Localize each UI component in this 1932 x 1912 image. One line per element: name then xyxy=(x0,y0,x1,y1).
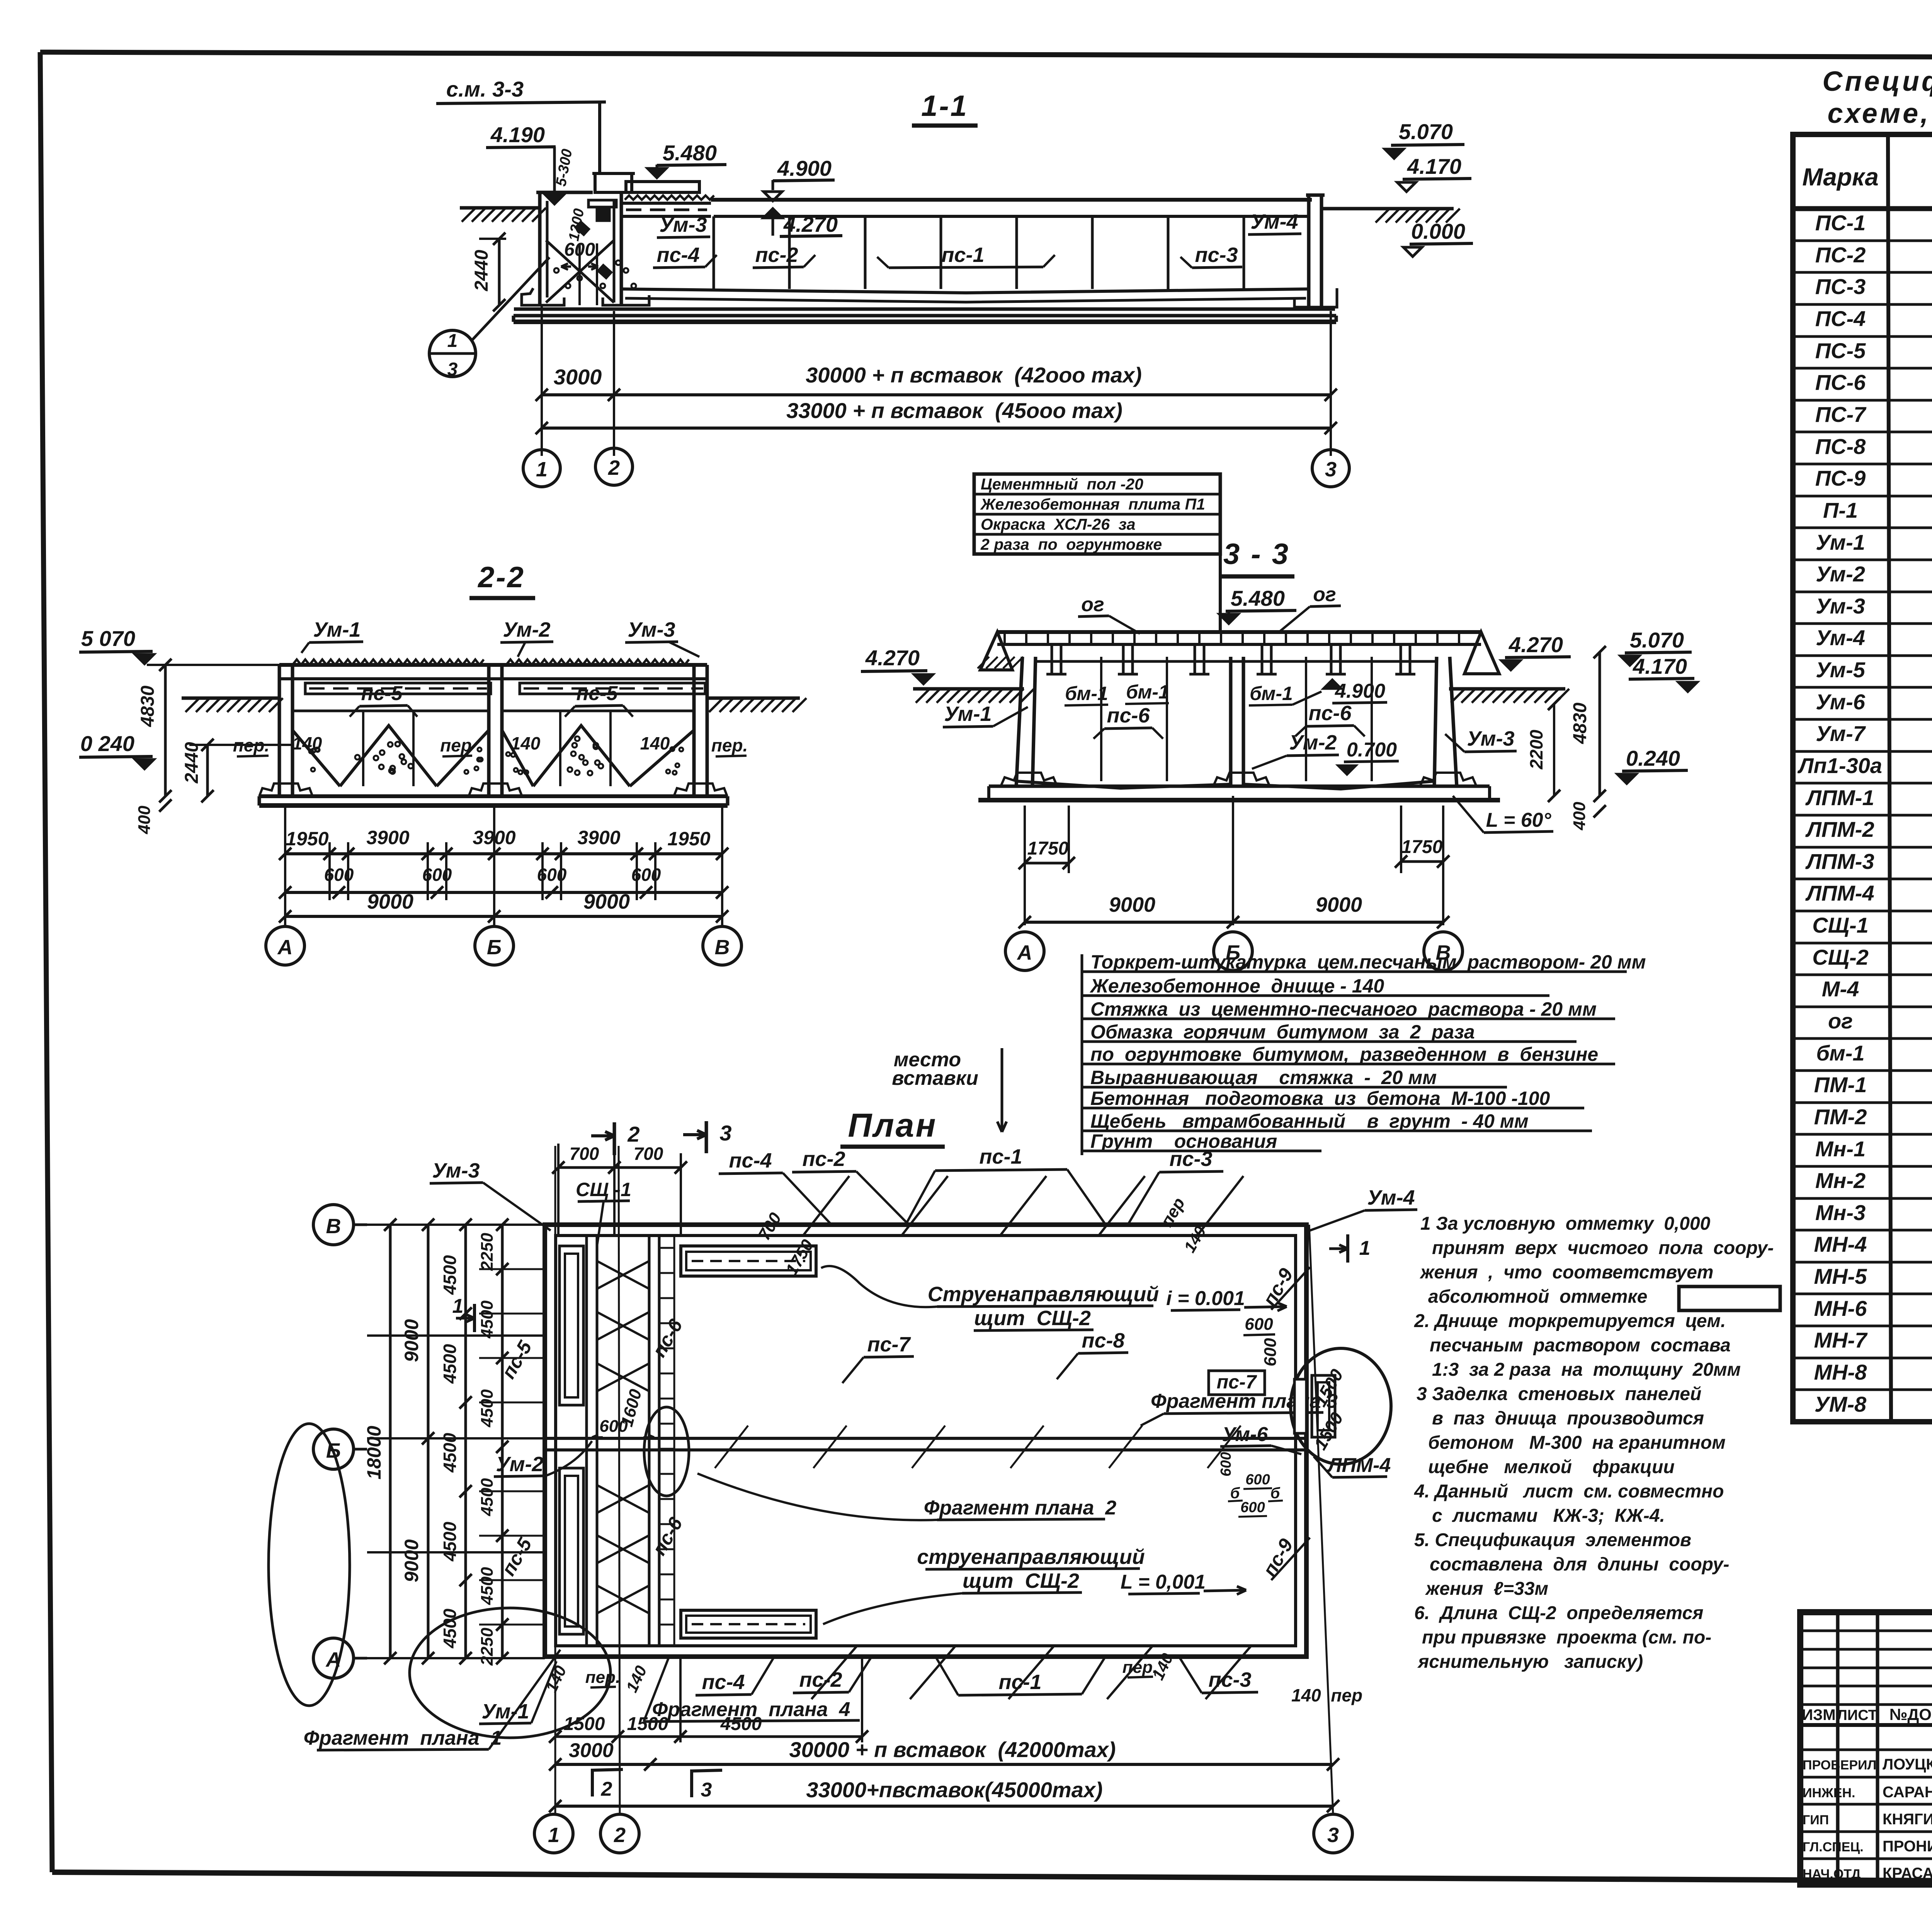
svg-text:Ум-3: Ум-3 xyxy=(432,1159,480,1182)
svg-text:140: 140 xyxy=(293,733,322,753)
plan wall hatch slashes bottom xyxy=(811,1646,857,1699)
svg-text:33000+пвставок(45000тах): 33000+пвставок(45000тах) xyxy=(806,1778,1102,1802)
svg-text:4. Данный лист см. совместн: 4. Данный лист см. совместно xyxy=(1414,1481,1724,1502)
svg-text:щебне мелкой фракции: щебне мелкой фракции xyxy=(1428,1457,1675,1477)
svg-text:Железобетонное днище - 140: Железобетонное днище - 140 xyxy=(1089,975,1384,997)
plan wall hatch slashes middle xyxy=(715,1426,748,1468)
svg-text:СЩ-2: СЩ-2 xyxy=(1812,945,1869,969)
svg-text:4830: 4830 xyxy=(138,685,158,727)
speckles in hopper 1-1 xyxy=(554,268,559,273)
svg-text:ог: ог xyxy=(1828,1009,1853,1033)
svg-text:схеме, расположенной на лис: схеме, расположенной на листе. xyxy=(1827,98,1932,129)
svg-text:Ум-1: Ум-1 xyxy=(313,618,361,641)
posts 2-2 xyxy=(362,711,364,786)
svg-text:3900: 3900 xyxy=(577,827,620,848)
svg-text:600: 600 xyxy=(631,865,661,885)
plan bottom dimension chains xyxy=(554,1146,556,1815)
svg-text:4.170: 4.170 xyxy=(1633,654,1687,678)
svg-text:ЛПМ-4: ЛПМ-4 xyxy=(1805,881,1874,905)
dims below 2-2 xyxy=(284,806,286,925)
svg-text:КРАСАВИН: КРАСАВИН xyxy=(1883,1865,1932,1882)
plan axis circle 2 bottom xyxy=(600,1814,639,1853)
svg-text:1: 1 xyxy=(536,458,548,481)
svg-text:МН-5: МН-5 xyxy=(1814,1264,1867,1288)
axis circle Б (3-3) xyxy=(1214,932,1252,970)
plan left lotki rectangles lower bay xyxy=(560,1468,583,1634)
svg-text:П-1: П-1 xyxy=(1823,498,1858,522)
svg-text:140 пер: 140 пер xyxy=(1291,1685,1362,1705)
svg-text:пер.: пер. xyxy=(585,1668,620,1687)
svg-text:600: 600 xyxy=(1245,1472,1270,1488)
plan bowtie connectors upper xyxy=(597,1261,649,1289)
svg-text:4500: 4500 xyxy=(478,1478,497,1516)
svg-text:1: 1 xyxy=(548,1824,560,1847)
svg-text:абсолютной отметке: абсолютной отметке xyxy=(1428,1287,1647,1307)
svg-text:1750: 1750 xyxy=(1027,838,1069,859)
lotok bars 2-2 xyxy=(305,683,491,694)
tie line 3-3 xyxy=(1036,660,1437,663)
svg-text:Щебень втрамбованный в г: Щебень втрамбованный в грунт - 40 мм xyxy=(1090,1110,1529,1132)
svg-text:Ум-2: Ум-2 xyxy=(1289,731,1337,754)
svg-text:Бетонная подготовка из бет: Бетонная подготовка из бетона М-100 -100 xyxy=(1090,1088,1550,1109)
ground line left of 1-1 xyxy=(460,206,541,210)
svg-text:700: 700 xyxy=(570,1144,599,1164)
spec table rows xyxy=(1793,240,1932,242)
bottom slab 3-3 xyxy=(1016,781,1231,788)
plan top-left shield rect СЩ-2 upper xyxy=(681,1246,816,1276)
svg-text:В: В xyxy=(715,936,730,959)
svg-text:2. Днище торкретируется цем.: 2. Днище торкретируется цем. xyxy=(1414,1311,1726,1331)
svg-text:3000: 3000 xyxy=(569,1739,614,1762)
svg-text:ЛОУЦКЕР: ЛОУЦКЕР xyxy=(1883,1756,1932,1773)
svg-text:0.700: 0.700 xyxy=(1347,739,1397,761)
svg-text:600: 600 xyxy=(1245,1315,1273,1334)
svg-text:L = 60°: L = 60° xyxy=(1486,809,1552,831)
spec table grid xyxy=(1793,134,1932,1422)
svg-text:МН-7: МН-7 xyxy=(1814,1328,1868,1352)
svg-text:4500: 4500 xyxy=(440,1344,460,1384)
svg-text:Окраска ХСЛ-26 за: Окраска ХСЛ-26 за xyxy=(981,515,1136,533)
ground 2-2 right xyxy=(707,697,800,700)
svg-text:1: 1 xyxy=(447,331,458,351)
svg-text:ПМ-2: ПМ-2 xyxy=(1814,1105,1867,1129)
svg-text:3900: 3900 xyxy=(473,827,515,848)
svg-text:Выравнивающая стяжка - 20: Выравнивающая стяжка - 20 мм xyxy=(1090,1067,1437,1088)
title block left revision table xyxy=(1836,1612,1840,1885)
section 1-1 tank body xyxy=(536,191,593,194)
svg-text:4.170: 4.170 xyxy=(1407,154,1461,178)
svg-text:бм-1: бм-1 xyxy=(1250,683,1293,704)
svg-text:ПС-3: ПС-3 xyxy=(1815,274,1866,299)
svg-text:1500: 1500 xyxy=(627,1714,668,1734)
svg-text:пер.: пер. xyxy=(233,735,270,755)
svg-text:МН-6: МН-6 xyxy=(1814,1296,1867,1321)
svg-text:в паз днища производится: в паз днища производится xyxy=(1432,1408,1704,1429)
plan big ellipse right xyxy=(1291,1348,1391,1464)
svg-text:Струенаправляющий: Струенаправляющий xyxy=(928,1283,1159,1306)
svg-text:Цементный пол -20: Цементный пол -20 xyxy=(981,475,1143,493)
svg-text:3: 3 xyxy=(719,1121,731,1145)
svg-text:600: 600 xyxy=(1261,1338,1280,1366)
svg-text:НАЧ.ОТД: НАЧ.ОТД xyxy=(1803,1867,1861,1881)
svg-text:пс-3: пс-3 xyxy=(1208,1668,1251,1691)
svg-text:пс-4: пс-4 xyxy=(729,1149,772,1172)
svg-text:ЛИСТ: ЛИСТ xyxy=(1837,1707,1877,1723)
svg-text:4.900: 4.900 xyxy=(1335,680,1385,702)
svg-text:600: 600 xyxy=(599,1417,628,1436)
svg-text:4500: 4500 xyxy=(440,1521,460,1562)
title block frame xyxy=(1800,1612,1932,1885)
svg-text:СЩ -1: СЩ -1 xyxy=(576,1179,631,1200)
svg-text:4500: 4500 xyxy=(478,1389,497,1428)
svg-text:9000: 9000 xyxy=(583,890,630,913)
svg-text:3: 3 xyxy=(701,1779,712,1801)
svg-text:МН-8: МН-8 xyxy=(1814,1360,1867,1384)
tank top line 1-1 xyxy=(711,198,1312,202)
svg-text:ИНЖЕН.: ИНЖЕН. xyxy=(1803,1786,1855,1800)
svg-text:пс-5: пс-5 xyxy=(361,682,403,705)
svg-text:План: План xyxy=(848,1107,937,1144)
svg-text:Ум-7: Ум-7 xyxy=(1816,721,1866,746)
svg-text:Ум-4: Ум-4 xyxy=(1250,210,1298,233)
plan boxed label пс-7 right xyxy=(1209,1371,1265,1395)
callout box four layers xyxy=(974,474,1220,554)
svg-text:М-4: М-4 xyxy=(1822,977,1859,1001)
plan cut mark 3 top xyxy=(705,1121,708,1153)
walls 3-3 xyxy=(1016,657,1022,786)
svg-text:составлена для длины соору-: составлена для длины соору- xyxy=(1430,1554,1729,1575)
dim lines below 1-1 xyxy=(541,305,543,456)
svg-text:4.270: 4.270 xyxy=(865,646,920,670)
svg-text:9000: 9000 xyxy=(1109,893,1155,916)
plan bottom-left ellipses xyxy=(269,1424,350,1706)
svg-text:5 070: 5 070 xyxy=(81,626,135,651)
svg-text:Торкрет-штукатурка цем.песчан: Торкрет-штукатурка цем.песчаным растворо… xyxy=(1090,951,1646,973)
svg-text:бм-1: бм-1 xyxy=(1816,1041,1864,1065)
svg-text:5.070: 5.070 xyxy=(1399,119,1453,144)
roof slab 2-2 xyxy=(279,663,707,667)
plan axis circle А xyxy=(313,1638,354,1678)
svg-text:1950: 1950 xyxy=(667,828,710,850)
svg-text:4.900: 4.900 xyxy=(777,156,832,180)
svg-text:Ум-5: Ум-5 xyxy=(1816,658,1866,682)
plan dim 700 700 top-left xyxy=(557,1144,560,1236)
walls 2-2 xyxy=(278,665,281,796)
svg-text:Мн-3: Мн-3 xyxy=(1815,1200,1866,1225)
svg-text:Ум-3: Ум-3 xyxy=(1467,727,1514,750)
svg-text:1:3 за 2 раза на толщину 2: 1:3 за 2 раза на толщину 20мм xyxy=(1432,1360,1741,1380)
svg-text:1: 1 xyxy=(1359,1237,1371,1259)
axis circle А (3-3) xyxy=(1005,932,1044,970)
hoppers 2-2 xyxy=(340,726,437,786)
plan wall hatch slashes top xyxy=(804,1176,849,1235)
svg-text:ПРОВЕРИЛ: ПРОВЕРИЛ xyxy=(1803,1758,1876,1773)
svg-text:пс-3: пс-3 xyxy=(1195,243,1238,267)
svg-text:ПМ-1: ПМ-1 xyxy=(1814,1072,1867,1097)
svg-text:с листами КЖ-3; КЖ-4.: с листами КЖ-3; КЖ-4. xyxy=(1432,1506,1665,1526)
svg-text:жения ℓ=33м: жения ℓ=33м xyxy=(1425,1579,1548,1599)
svg-text:Ум-1: Ум-1 xyxy=(944,702,992,726)
svg-text:140: 140 xyxy=(511,733,541,753)
svg-text:Фрагмент плана 1: Фрагмент плана 1 xyxy=(304,1727,502,1749)
svg-text:3 - 3: 3 - 3 xyxy=(1223,538,1290,571)
axis circle 3 (1-1) xyxy=(1312,450,1349,487)
svg-text:Мн-2: Мн-2 xyxy=(1815,1168,1866,1193)
svg-text:0 240: 0 240 xyxy=(80,731,134,756)
svg-text:400: 400 xyxy=(1570,802,1589,831)
svg-text:пер.: пер. xyxy=(711,735,748,755)
X bracing left compartment 1-1 xyxy=(546,240,614,303)
svg-text:Железобетонная плита П1: Железобетонная плита П1 xyxy=(980,495,1205,513)
svg-text:пс-3: пс-3 xyxy=(1169,1147,1212,1171)
svg-text:600: 600 xyxy=(422,865,452,885)
svg-text:18000: 18000 xyxy=(363,1426,385,1479)
svg-text:пс-7: пс-7 xyxy=(1217,1371,1257,1393)
svg-text:Ум-1: Ум-1 xyxy=(1816,530,1865,554)
plan cut mark 1 right xyxy=(1346,1234,1349,1263)
svg-text:Ум-2: Ум-2 xyxy=(503,618,550,641)
empty box for absolute mark xyxy=(1679,1287,1780,1310)
svg-text:УМ-8: УМ-8 xyxy=(1815,1392,1867,1416)
svg-text:А: А xyxy=(325,1648,341,1671)
plan axis dashdot lines xyxy=(545,1224,1306,1225)
svg-text:пс-5: пс-5 xyxy=(577,682,618,705)
svg-text:А: А xyxy=(1017,941,1032,964)
svg-text:9000: 9000 xyxy=(367,890,413,913)
svg-text:2250: 2250 xyxy=(478,1628,497,1666)
interior line 2-2 xyxy=(293,710,489,712)
svg-text:А: А xyxy=(277,936,293,959)
svg-text:4500: 4500 xyxy=(440,1433,460,1473)
svg-text:2200: 2200 xyxy=(1526,729,1546,770)
svg-text:1750: 1750 xyxy=(1401,837,1443,857)
svg-text:5.070: 5.070 xyxy=(1630,628,1684,652)
plan cut mark 2 bottom xyxy=(591,1769,594,1796)
roof left wedge 3-3 xyxy=(980,632,1012,670)
svg-text:600: 600 xyxy=(324,865,354,885)
svg-text:3: 3 xyxy=(447,359,458,380)
svg-text:4500: 4500 xyxy=(720,1714,762,1734)
layer notes under 3-3 xyxy=(1081,954,1083,1155)
plan axis circle В xyxy=(313,1205,354,1245)
svg-text:вставки: вставки xyxy=(892,1067,978,1089)
svg-text:ПС-6: ПС-6 xyxy=(1815,370,1866,394)
svg-text:4.190: 4.190 xyxy=(490,122,545,147)
svg-text:ГЛ.СПЕЦ.: ГЛ.СПЕЦ. xyxy=(1803,1840,1864,1854)
svg-text:9000: 9000 xyxy=(401,1319,422,1362)
svg-text:3: 3 xyxy=(1325,458,1337,481)
svg-text:2440: 2440 xyxy=(182,742,202,783)
svg-text:ПС-8: ПС-8 xyxy=(1815,434,1866,459)
svg-text:щит СЩ-2: щит СЩ-2 xyxy=(974,1307,1091,1330)
svg-text:пс-6: пс-6 xyxy=(1107,704,1150,727)
svg-text:1 За условную отметку 0,000: 1 За условную отметку 0,000 xyxy=(1420,1213,1711,1234)
footings 3-3 xyxy=(1001,773,1057,786)
svg-text:Ум-3: Ум-3 xyxy=(659,213,707,236)
roof slab 3-3 xyxy=(997,630,1481,634)
svg-text:ПС-5: ПС-5 xyxy=(1815,338,1866,363)
svg-text:600: 600 xyxy=(1218,1452,1234,1476)
axis circle В (2-2) xyxy=(703,926,742,965)
svg-text:ЛПМ-1: ЛПМ-1 xyxy=(1805,785,1874,810)
svg-text:ЛПМ-2: ЛПМ-2 xyxy=(1805,817,1874,841)
plan left channel verticals xyxy=(585,1236,588,1646)
svg-text:пс-2: пс-2 xyxy=(755,243,798,267)
svg-text:2: 2 xyxy=(608,456,620,479)
panel joints 3-3 xyxy=(1100,657,1102,781)
ground 3-3 left xyxy=(913,687,1024,691)
svg-text:пс-1: пс-1 xyxy=(998,1671,1041,1694)
svg-text:600: 600 xyxy=(564,240,595,260)
plan left dimension chains xyxy=(367,1224,545,1226)
svg-text:Ум-4: Ум-4 xyxy=(1816,625,1865,650)
dims 1750 (3-3) xyxy=(1024,806,1026,925)
svg-text:3900: 3900 xyxy=(366,827,409,848)
tank bottom 1-1 xyxy=(621,289,1309,293)
svg-text:3 Заделка стеновых панелей: 3 Заделка стеновых панелей xyxy=(1417,1384,1701,1404)
svg-text:В: В xyxy=(326,1215,341,1238)
svg-text:ПС-7: ПС-7 xyxy=(1815,402,1867,427)
svg-text:4500: 4500 xyxy=(440,1608,460,1649)
svg-text:400: 400 xyxy=(135,806,154,834)
svg-text:Ум-4: Ум-4 xyxy=(1367,1186,1415,1209)
svg-text:9000: 9000 xyxy=(1316,893,1362,916)
svg-text:5.480: 5.480 xyxy=(1231,586,1285,610)
ground 2-2 left xyxy=(182,697,279,700)
svg-text:4.270: 4.270 xyxy=(1509,632,1563,657)
svg-text:2: 2 xyxy=(601,1778,612,1800)
plan ladder ticks on channel xyxy=(659,1247,674,1249)
svg-text:5.480: 5.480 xyxy=(663,141,717,165)
page border frame xyxy=(40,52,1932,59)
svg-text:30000 + п вставок (42000тах): 30000 + п вставок (42000тах) xyxy=(789,1737,1116,1762)
roof right wedge 3-3 xyxy=(1464,632,1499,674)
svg-text:ПС-2: ПС-2 xyxy=(1815,243,1866,267)
svg-text:ПС-9: ПС-9 xyxy=(1815,466,1866,490)
svg-text:3000: 3000 xyxy=(554,365,602,389)
svg-text:Мн-1: Мн-1 xyxy=(1815,1137,1866,1161)
plan cut mark 3 bottom xyxy=(690,1769,693,1797)
svg-text:яснительную записку): яснительную записку) xyxy=(1417,1652,1643,1672)
svg-text:2 раза по огрунтовке: 2 раза по огрунтовке xyxy=(980,535,1162,553)
svg-text:1: 1 xyxy=(452,1295,464,1317)
svg-text:при привязке проекта (см. по-: при привязке проекта (см. по- xyxy=(1422,1627,1711,1648)
svg-text:600: 600 xyxy=(537,865,567,885)
svg-text:КНЯГИНИЧЕВ: КНЯГИНИЧЕВ xyxy=(1883,1811,1932,1828)
detail callout circle 1/3 xyxy=(429,330,476,377)
svg-text:бм-1: бм-1 xyxy=(1126,681,1169,703)
plan outer walls xyxy=(545,1225,1306,1657)
svg-text:600: 600 xyxy=(1240,1499,1265,1516)
svg-text:ПС-4: ПС-4 xyxy=(1815,306,1866,331)
svg-text:4500: 4500 xyxy=(478,1567,497,1605)
axis circle 1 (1-1) xyxy=(523,450,560,487)
svg-text:Стяжка из цементно-песчаного: Стяжка из цементно-песчаного раствора - … xyxy=(1090,998,1597,1020)
svg-text:ГИП: ГИП xyxy=(1803,1813,1829,1827)
serrated water edge 1-1 xyxy=(625,195,714,200)
svg-text:4500: 4500 xyxy=(478,1300,497,1339)
svg-text:струенаправляющий: струенаправляющий xyxy=(917,1545,1145,1569)
ground line right of 1-1 xyxy=(1321,207,1454,211)
axis circle Б (2-2) xyxy=(475,926,514,965)
svg-text:4500: 4500 xyxy=(440,1255,460,1295)
plan axis circle Б xyxy=(313,1429,354,1469)
svg-text:0.000: 0.000 xyxy=(1411,219,1465,243)
axis circle 2 (1-1) xyxy=(595,448,633,485)
svg-text:щит СЩ-2: щит СЩ-2 xyxy=(963,1569,1079,1592)
svg-text:ЛПМ-3: ЛПМ-3 xyxy=(1805,849,1874,874)
svg-text:МН-4: МН-4 xyxy=(1814,1232,1867,1256)
base slab 2-2 xyxy=(259,794,728,798)
svg-text:2: 2 xyxy=(627,1122,639,1146)
svg-text:1-1: 1-1 xyxy=(921,90,968,122)
svg-text:3: 3 xyxy=(1327,1824,1339,1847)
plan middle wall xyxy=(545,1437,1306,1440)
svg-text:0.240: 0.240 xyxy=(1626,746,1680,770)
svg-text:9000: 9000 xyxy=(401,1539,422,1582)
svg-text:пс-1: пс-1 xyxy=(979,1145,1022,1168)
svg-text:ПРОНИН: ПРОНИН xyxy=(1883,1838,1932,1855)
svg-text:2250: 2250 xyxy=(478,1233,497,1271)
svg-text:с.м. 3-3: с.м. 3-3 xyxy=(446,77,524,101)
axis circle В (3-3) xyxy=(1424,932,1463,970)
plan axis circle 3 bottom xyxy=(1314,1814,1352,1853)
svg-text:Фрагмент плана 3: Фрагмент плана 3 xyxy=(1151,1390,1338,1412)
svg-text:пер: пер xyxy=(440,735,472,755)
svg-text:Ум-6: Ум-6 xyxy=(1222,1423,1269,1446)
svg-text:i = 0.001: i = 0.001 xyxy=(1166,1287,1245,1310)
svg-text:Обмазка горячим битумом за: Обмазка горячим битумом за 2 раза xyxy=(1090,1021,1475,1043)
svg-text:песчаным раствором состава: песчаным раствором состава xyxy=(1430,1335,1731,1356)
speckles in hoppers 2-2 xyxy=(374,756,378,760)
dim 9000 9000 (3-3) xyxy=(1232,796,1234,925)
base slab 1-1 xyxy=(514,308,1335,311)
svg-text:б: б xyxy=(1270,1485,1281,1502)
svg-text:2: 2 xyxy=(614,1824,626,1847)
hangers 3-3 xyxy=(1020,643,1461,646)
svg-text:ог: ог xyxy=(1081,593,1104,616)
svg-text:1950: 1950 xyxy=(286,828,328,850)
svg-text:4830: 4830 xyxy=(1570,702,1590,744)
svg-text:Ум-3: Ум-3 xyxy=(1816,594,1865,618)
svg-text:бетоном М-300 на гранитном: бетоном М-300 на гранитном xyxy=(1428,1433,1726,1453)
svg-text:пс-2: пс-2 xyxy=(799,1668,842,1691)
svg-text:Ум-6: Ум-6 xyxy=(1816,690,1866,714)
plan section mark 1 left xyxy=(473,1304,476,1332)
svg-text:жения , что соответствует: жения , что соответствует xyxy=(1419,1262,1713,1283)
svg-text:пс-4: пс-4 xyxy=(702,1671,745,1694)
ground 3-3 right xyxy=(1449,687,1565,691)
svg-text:пс-7: пс-7 xyxy=(867,1333,911,1356)
svg-text:Ум-3: Ум-3 xyxy=(628,618,675,641)
svg-text:ИЗМ: ИЗМ xyxy=(1802,1706,1835,1723)
axis circle А (2-2) xyxy=(266,926,304,965)
svg-text:по огрунтовке битумом, разв: по огрунтовке битумом, разведенном в бен… xyxy=(1090,1044,1598,1065)
svg-text:Лп1-30а: Лп1-30а xyxy=(1797,753,1882,778)
svg-text:пс-1: пс-1 xyxy=(941,243,984,267)
svg-text:6. Длина СЩ-2 определяется: 6. Длина СЩ-2 определяется xyxy=(1414,1603,1703,1623)
svg-text:2-2: 2-2 xyxy=(477,561,525,594)
svg-text:ПС-1: ПС-1 xyxy=(1815,211,1866,235)
plan right side door gaps xyxy=(1294,1379,1306,1433)
plan axis circle 1 bottom xyxy=(534,1814,573,1853)
svg-text:пс-8: пс-8 xyxy=(1082,1329,1124,1352)
svg-text:бм-1: бм-1 xyxy=(1065,683,1108,704)
svg-text:Спецификация Элементов к ма: Спецификация Элементов к маркировочной xyxy=(1822,66,1932,97)
serrated edge 2-2 xyxy=(293,659,484,665)
svg-text:ог: ог xyxy=(1313,583,1336,606)
svg-text:Ум-2: Ум-2 xyxy=(1816,562,1865,586)
